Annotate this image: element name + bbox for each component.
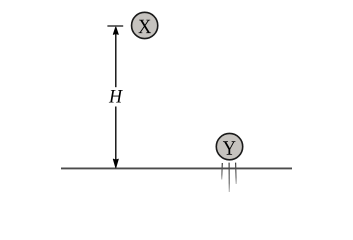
motion streak right — [235, 163, 238, 184]
label H — [109, 90, 123, 102]
label Y — [223, 141, 235, 154]
arrowhead down — [113, 159, 118, 168]
motion streak left — [221, 163, 224, 180]
wire: arrow shaft upper segment — [115, 32, 117, 87]
motion streak middle — [228, 163, 230, 192]
ground — [61, 167, 292, 169]
arrowhead up — [113, 27, 118, 35]
label X — [138, 20, 151, 33]
tick mark (height reference at X) — [107, 25, 123, 27]
ball Y — [216, 133, 242, 159]
wire: arrow shaft lower segment — [115, 107, 117, 162]
ball X — [132, 12, 158, 38]
